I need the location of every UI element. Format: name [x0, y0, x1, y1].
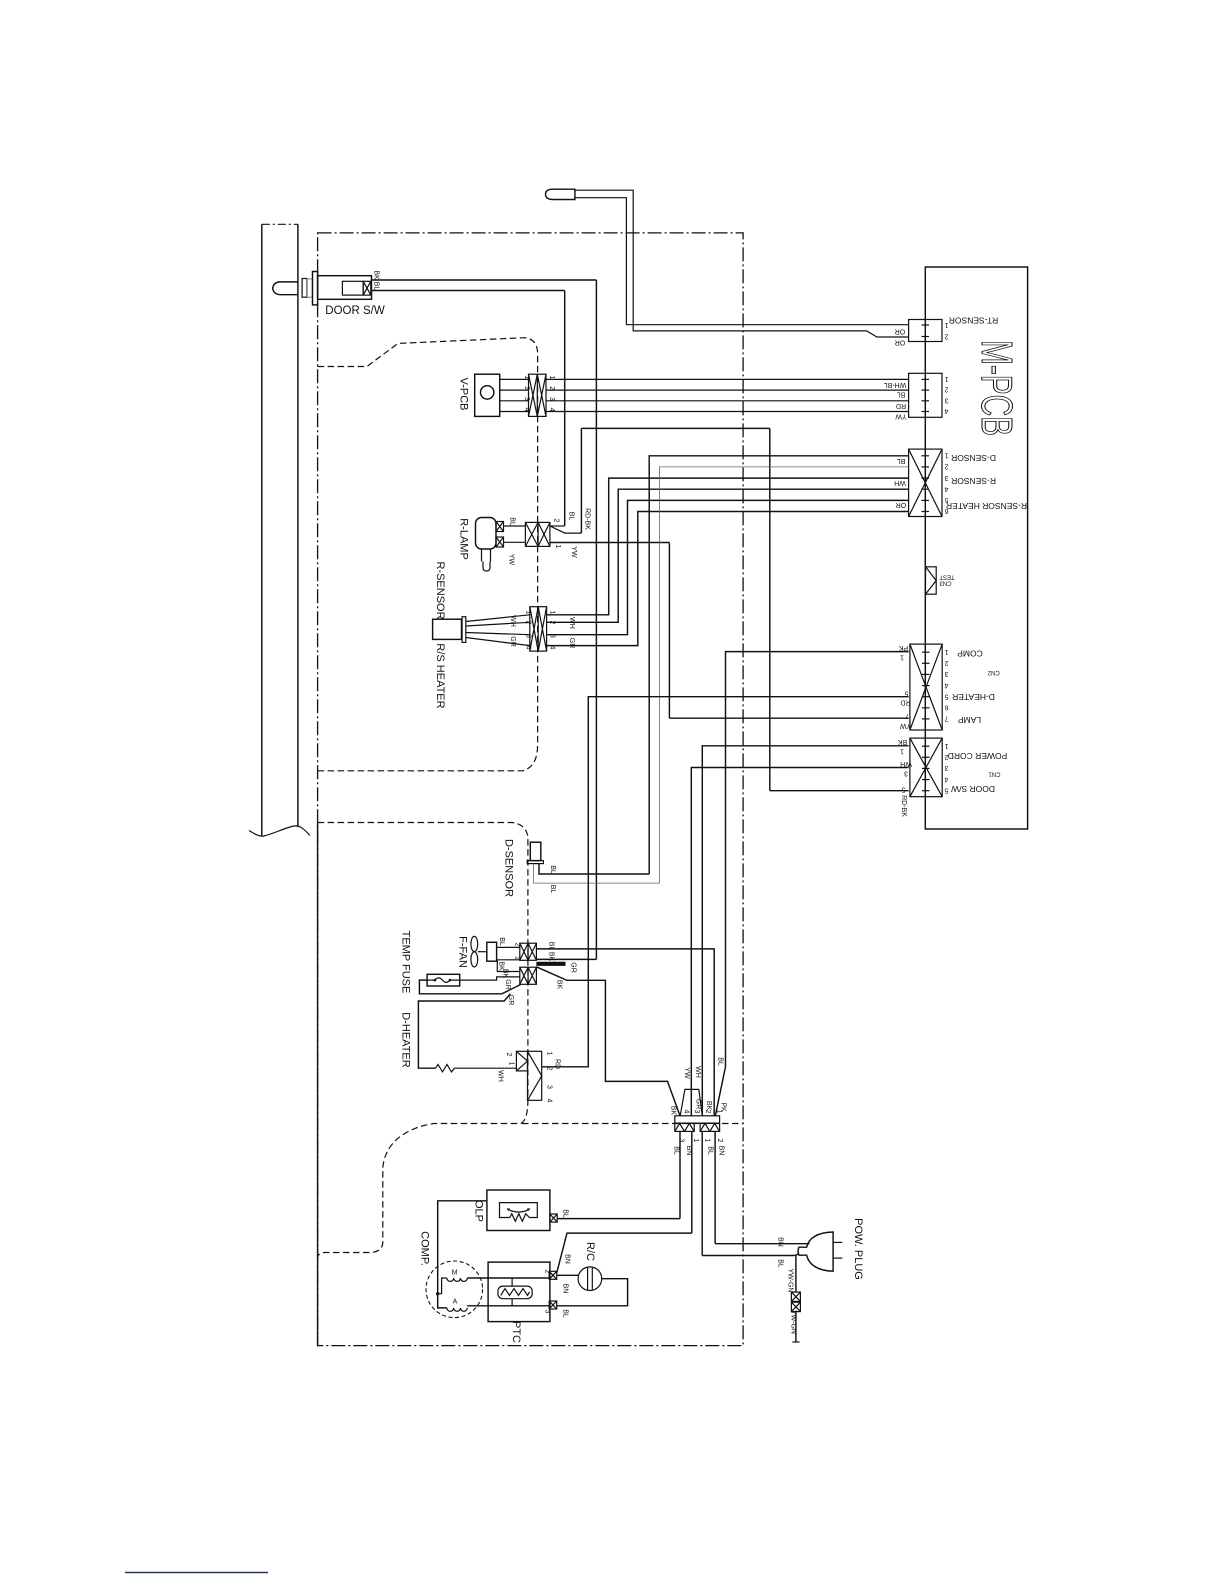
svg-text:1: 1 [508, 1062, 515, 1066]
svg-text:GR: GR [695, 1099, 702, 1110]
svg-text:3: 3 [544, 1310, 551, 1314]
wire PK CN2 pin1 trunk [715, 652, 908, 1116]
svg-text:4: 4 [944, 681, 948, 688]
svg-text:BL: BL [717, 1057, 724, 1066]
svg-text:R/C: R/C [584, 1242, 596, 1261]
svg-text:D-HEATER: D-HEATER [952, 692, 995, 702]
svg-text:POWER CORD: POWER CORD [948, 751, 1008, 761]
svg-text:BL: BL [568, 512, 575, 521]
wire RD-BK top horizontal [581, 427, 769, 429]
door switch body [318, 276, 372, 300]
D-SENSOR 6pin connector on M-PCB [909, 449, 942, 516]
svg-text:1: 1 [549, 611, 556, 615]
svg-text:D-SENSOR: D-SENSOR [951, 453, 996, 463]
svg-text:3: 3 [693, 1110, 700, 1114]
pins 1-6 [944, 452, 948, 515]
svg-text:GR: GR [507, 995, 514, 1006]
svg-text:DOOR S/W: DOOR S/W [951, 784, 995, 794]
wire RD-BK vertical [580, 428, 582, 533]
label 5 / RD-BK CN1 [900, 786, 907, 818]
svg-text:WH: WH [497, 1070, 504, 1082]
svg-text:3: 3 [678, 1139, 685, 1143]
svg-text:YW-GN: YW-GN [790, 1310, 797, 1334]
COMP dashed circle [426, 1261, 483, 1318]
wire D-heater GR top [418, 994, 510, 1068]
svg-text:BL: BL [777, 1259, 784, 1268]
svg-text:2: 2 [505, 1053, 512, 1057]
svg-text:1: 1 [944, 452, 948, 459]
svg-text:3: 3 [525, 634, 532, 638]
wire fan BK out to door trunk [536, 958, 596, 960]
thick GR ground stub [536, 962, 565, 966]
R-LAMP terminal 1 [496, 522, 504, 532]
svg-text:BL: BL [562, 1309, 569, 1318]
COMP A winding [447, 1308, 467, 1311]
earth terminal box 2 [791, 1302, 800, 1311]
svg-text:2: 2 [944, 659, 948, 666]
svg-text:1: 1 [554, 545, 561, 549]
svg-text:1: 1 [704, 1139, 711, 1143]
svg-text:4: 4 [683, 1110, 690, 1114]
svg-text:4: 4 [944, 775, 948, 782]
svg-text:BL: BL [897, 457, 906, 464]
svg-text:TEST: TEST [939, 574, 955, 580]
cabinet outer left edge lower solid overlay [317, 823, 319, 1346]
V-PCB component box [475, 374, 500, 416]
F-FAN shaft [478, 951, 487, 953]
svg-text:3: 3 [944, 474, 948, 481]
junction connector bottom box 2 [700, 1123, 720, 1131]
svg-text:GR: GR [568, 638, 575, 649]
svg-text:R/S HEATER: R/S HEATER [434, 643, 446, 708]
svg-text:BL: BL [673, 1146, 680, 1155]
temp fuse element [427, 978, 460, 983]
R/C capacitor circle [578, 1267, 602, 1291]
D-heater connector left box [516, 1051, 527, 1071]
D-SENSOR crossbar [527, 861, 543, 864]
wire door BL [371, 290, 565, 292]
F-FAN motor box [487, 942, 497, 961]
svg-text:2: 2 [944, 386, 948, 393]
svg-text:WH: WH [509, 615, 516, 627]
wire YW to CN2 pin7 [669, 717, 908, 719]
svg-text:3: 3 [904, 770, 908, 777]
svg-text:1: 1 [944, 321, 948, 328]
svg-text:1: 1 [692, 1139, 699, 1143]
svg-text:4: 4 [944, 485, 948, 492]
RT-SENSOR connector on M-PCB [909, 320, 942, 342]
svg-text:OLP: OLP [473, 1200, 485, 1222]
cabinet outer box (dash-dot) [318, 233, 743, 1346]
PTC terminal pin3 [549, 1301, 557, 1309]
wires V-PCB to connector [500, 379, 529, 411]
wire YW vertical [668, 543, 670, 719]
svg-text:BK: BK [373, 270, 380, 280]
F-FAN blade petal bottom [471, 952, 478, 967]
wire OLP left to COMP [438, 1201, 487, 1308]
PTC element [498, 1286, 532, 1299]
svg-text:WH: WH [694, 1066, 701, 1078]
wall left vertical 2 [297, 224, 299, 827]
pin numbers left V-PCB conn [523, 376, 530, 412]
wire R-LAMP pin2 to BL [550, 525, 565, 527]
R-SENSOR body [433, 619, 462, 639]
svg-text:BK: BK [556, 980, 563, 990]
svg-text:R-LAMP: R-LAMP [458, 518, 470, 560]
svg-text:GR: GR [509, 636, 516, 647]
svg-text:BL: BL [549, 885, 556, 894]
R-SENSOR bar [462, 617, 466, 643]
svg-text:BN: BN [564, 1254, 571, 1264]
earth terminal box 1 [791, 1292, 800, 1301]
R-SENSOR fan-out wires [466, 615, 530, 646]
svg-text:YW: YW [570, 546, 577, 558]
temp fuse element dots [434, 979, 437, 982]
pins 1-7 CN2 [944, 648, 948, 722]
svg-text:2: 2 [944, 333, 948, 340]
wire PTC pin2 to R/C [557, 1274, 579, 1276]
OLP arc arrowheads [507, 1208, 510, 1211]
svg-text:BL: BL [373, 282, 380, 291]
pin numbers right R-SENSOR conn [549, 611, 556, 650]
svg-text:6: 6 [944, 704, 948, 711]
svg-text:YW: YW [895, 413, 907, 420]
wire D-sensor lead 1 [539, 864, 649, 874]
svg-text:1: 1 [944, 375, 948, 382]
pin numbers right V-PCB conn [548, 376, 555, 412]
svg-text:PTC: PTC [510, 1321, 522, 1343]
svg-text:OR: OR [896, 501, 907, 508]
PTC box [488, 1262, 550, 1322]
svg-text:BL: BL [562, 1209, 569, 1218]
svg-text:3: 3 [944, 396, 948, 403]
svg-text:OR: OR [895, 328, 906, 335]
D-SENSOR component body [530, 842, 541, 860]
svg-text:M: M [452, 1270, 458, 1277]
wire fan BL [497, 946, 520, 948]
wire earth lower [795, 1312, 797, 1342]
wire BN to plug [715, 1243, 809, 1245]
wires V-PCB connector to M-PCB [546, 379, 909, 411]
svg-text:YW: YW [508, 554, 515, 566]
svg-text:F-FAN: F-FAN [457, 936, 469, 968]
svg-text:BL: BL [707, 1146, 714, 1155]
svg-text:RD: RD [896, 402, 906, 409]
svg-text:BN: BN [562, 1284, 569, 1294]
label 5 / RD [900, 690, 910, 706]
wire A winding to PTC pin3 [467, 1305, 549, 1307]
svg-text:R-SENSOR: R-SENSOR [951, 476, 996, 486]
PTC element stubs [511, 1278, 513, 1306]
OLP bimetal arc [508, 1209, 530, 1212]
TEMP FUSE box [427, 974, 460, 986]
svg-text:BN: BN [718, 1146, 725, 1156]
svg-text:2: 2 [525, 621, 532, 625]
wire M winding to PTC pin2 [467, 1277, 549, 1279]
R-SENSOR cable connector [530, 607, 547, 651]
door switch ring 1 [302, 279, 307, 298]
svg-text:GR: GR [504, 979, 511, 990]
wire BK lower diagonal [536, 967, 680, 1116]
svg-text:BK: BK [898, 738, 908, 745]
wire RD-BK right vertical [769, 428, 771, 790]
svg-text:BN: BN [685, 1146, 692, 1156]
RT sensor tube inner line [575, 198, 909, 325]
OLP inner loop with heater [500, 1203, 538, 1222]
label BK / 1 CN1 [898, 738, 908, 755]
power plug body [798, 1232, 833, 1271]
pins 1-5 CN1 [944, 742, 948, 794]
svg-text:YW: YW [683, 1067, 690, 1079]
COMP branch to M winding [438, 1278, 447, 1294]
wire D-sensor lead 2 [534, 467, 909, 883]
svg-text:M-PCB: M-PCB [972, 340, 1021, 436]
F-FAN cable connector lower [520, 967, 537, 984]
wire PTC pin2 diagonal BN up [557, 1233, 692, 1273]
R-LAMP bulb neck [482, 549, 491, 562]
svg-text:GR: GR [570, 962, 577, 973]
M-PCB board box [925, 267, 1027, 829]
svg-text:OR: OR [895, 339, 906, 346]
RT sensor tube outer line [575, 190, 909, 337]
plug prong 2 [833, 1257, 842, 1259]
plug prong 1 [833, 1241, 842, 1243]
svg-text:1: 1 [716, 1110, 723, 1114]
V-PCB cable connector [529, 374, 547, 416]
svg-text:RT-SENSOR: RT-SENSOR [949, 316, 998, 326]
F-FAN blade petal top [471, 936, 478, 951]
upper compartment liner (dashed) [318, 338, 538, 771]
junction bottom pin numbers [678, 1139, 724, 1143]
wire BK CN1 pin1 trunk [702, 746, 908, 1116]
svg-text:LAMP: LAMP [958, 715, 981, 725]
svg-text:BK: BK [670, 1106, 677, 1116]
label PK / 1 [899, 644, 909, 661]
svg-text:WH: WH [900, 760, 912, 767]
wall bottom break squiggle [249, 826, 310, 836]
junction bridge wire pin4-pin2 [680, 1089, 702, 1115]
door switch flange [313, 272, 318, 305]
svg-text:TEMP FUSE: TEMP FUSE [400, 931, 412, 994]
svg-text:2: 2 [544, 1270, 551, 1274]
svg-text:RD: RD [900, 699, 910, 706]
svg-text:RD-BK: RD-BK [900, 795, 907, 817]
junction pin numbers top [683, 1110, 723, 1114]
OLP box [487, 1190, 550, 1231]
svg-text:2: 2 [553, 519, 560, 523]
svg-text:4: 4 [546, 1099, 553, 1103]
COMP node dot [436, 1292, 439, 1295]
svg-text:V-PCB: V-PCB [458, 377, 470, 410]
R-LAMP bulb body [476, 518, 497, 550]
wire BL to plug [702, 1253, 799, 1256]
wire BN junction to PTC [691, 1131, 693, 1233]
svg-text:YW: YW [899, 722, 911, 729]
svg-text:BL: BL [498, 937, 505, 946]
wire BN junction to plug [714, 1131, 716, 1243]
svg-text:CN1: CN1 [988, 771, 1001, 777]
svg-text:D-HEATER: D-HEATER [400, 1012, 412, 1067]
svg-text:YW-GN: YW-GN [787, 1269, 794, 1293]
svg-text:2: 2 [704, 1110, 711, 1114]
pin numbers left R-SENSOR conn [525, 611, 532, 650]
wall (door jamb) left vertical 1 [261, 224, 263, 836]
svg-text:BL: BL [509, 517, 516, 526]
wire R-sensor pin1 out [547, 478, 909, 615]
svg-text:CN2: CN2 [987, 669, 1000, 675]
label 7 / YW [899, 712, 911, 729]
junction connector top bar [675, 1116, 720, 1123]
page footer blue rule [125, 1572, 268, 1574]
svg-text:BL: BL [897, 391, 906, 398]
svg-text:COMP: COMP [957, 648, 983, 658]
junction connector bottom box 1 [675, 1123, 694, 1131]
svg-text:COMP.: COMP. [419, 1231, 431, 1266]
wire fuse left loop [419, 980, 520, 994]
door switch terminal box [363, 281, 371, 295]
svg-text:CN3: CN3 [939, 580, 952, 586]
svg-text:5: 5 [901, 786, 905, 793]
svg-text:3: 3 [944, 670, 948, 677]
svg-text:PK: PK [899, 644, 909, 651]
svg-text:POW. PLUG: POW. PLUG [852, 1218, 864, 1280]
svg-text:2: 2 [716, 1139, 723, 1143]
svg-text:3: 3 [546, 1085, 553, 1089]
OLP terminal [550, 1214, 557, 1222]
svg-text:R-SENSOR HEATER: R-SENSOR HEATER [946, 501, 1027, 511]
svg-text:5: 5 [944, 692, 948, 699]
svg-text:WH: WH [894, 479, 906, 486]
wire R-LAMP pin2 diagonal RD-BK [550, 526, 582, 533]
wire lamp t2 to conn [504, 541, 526, 543]
pin numbers right d-heater conn [546, 1052, 553, 1103]
wire RD-BK to CN1 pin5 [770, 790, 909, 792]
CN2 connector on M-PCB [910, 644, 942, 730]
wire R/C right loop to PTC pin3 [557, 1279, 628, 1306]
RT sensor probe capsule [546, 189, 575, 199]
wire door BL vertical to R-LAMP pin2 [564, 291, 566, 527]
wall top edge [262, 223, 298, 225]
V-PCB connector on M-PCB [909, 373, 942, 417]
svg-text:1: 1 [546, 1052, 553, 1056]
door switch inner contact rect [342, 281, 363, 295]
svg-text:5: 5 [944, 786, 948, 793]
door switch DOOR S/W plunger [273, 282, 298, 295]
D-heater resistor zigzag [436, 1065, 517, 1072]
wire R-sensor pin3 out [547, 500, 909, 634]
svg-text:4: 4 [944, 407, 948, 414]
svg-text:7: 7 [944, 715, 948, 722]
wire fan BK [497, 960, 520, 972]
svg-text:3: 3 [944, 764, 948, 771]
svg-text:BN: BN [777, 1237, 784, 1247]
wire door BK vertical trunk [595, 280, 597, 959]
wire door BK [372, 279, 597, 281]
D-heater connector right box [528, 1051, 542, 1100]
wire lamp t1 to conn [504, 525, 526, 527]
door switch ring 2 [307, 279, 312, 297]
svg-text:BL: BL [549, 865, 556, 874]
svg-text:1: 1 [944, 648, 948, 655]
wire D-sensor lead 1 vertical to M-PCB pin1 [649, 456, 908, 874]
svg-text:DOOR S/W: DOOR S/W [325, 305, 385, 317]
CN1 connector on M-PCB [910, 738, 942, 797]
wire RD d-heater to CN2 pin5 [542, 697, 909, 1067]
PTC terminal pin2 [549, 1271, 557, 1279]
svg-text:1: 1 [900, 654, 904, 661]
wire BL junction to OLP [679, 1131, 681, 1218]
svg-text:RD: RD [554, 1059, 561, 1069]
COMP M winding [447, 1278, 467, 1281]
earth end tick [792, 1341, 799, 1343]
R-LAMP bulb base [483, 562, 490, 572]
svg-text:D-SENSOR: D-SENSOR [503, 839, 515, 897]
wire R-LAMP pin1 YW [550, 542, 670, 544]
F-FAN cable connector upper [520, 943, 537, 960]
svg-text:1: 1 [944, 742, 948, 749]
lower compartment liner (dashed) [318, 823, 528, 1258]
svg-text:1: 1 [900, 748, 904, 755]
V-PCB circle [481, 386, 494, 399]
wire WH CN1 pin3 trunk [691, 768, 908, 1116]
svg-text:RD-BK: RD-BK [584, 508, 591, 530]
wire R-sensor pin2 out [547, 489, 909, 622]
wire BL junction to plug [701, 1131, 703, 1255]
R-LAMP terminal 2 [496, 537, 504, 547]
CN3 TEST connector [926, 567, 937, 594]
R-LAMP cable connector [525, 522, 550, 546]
svg-text:2: 2 [944, 463, 948, 470]
wire R-sensor pin4 out [547, 512, 909, 646]
label WH / 3 CN1 [900, 760, 912, 777]
pins 1-4 V-PCB conn [944, 375, 948, 414]
wire YW-GN earth [795, 1256, 797, 1293]
svg-text:R-SENSOR: R-SENSOR [434, 561, 446, 619]
wire fan BL out to trunk [536, 949, 714, 1116]
wire fuse right to fan conn GR pin [460, 977, 520, 980]
svg-text:5: 5 [904, 690, 908, 697]
svg-text:WH-BL: WH-BL [884, 381, 907, 388]
svg-text:A: A [453, 1299, 458, 1306]
wire OLP to junction [557, 1218, 680, 1220]
lower liner bottom dashed extension through junction [522, 1123, 743, 1125]
